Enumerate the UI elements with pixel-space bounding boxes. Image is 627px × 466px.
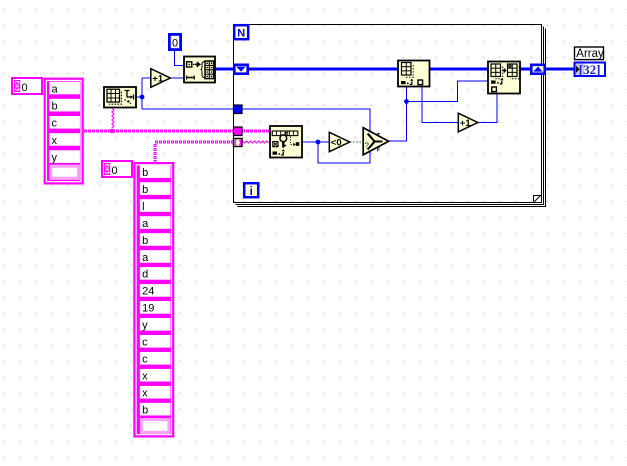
svg-text:Array: Array — [576, 48, 604, 60]
Array indicator terminal I32 — [575, 62, 606, 77]
Select node — [363, 128, 389, 155]
wire string element inside loop to Search node — [243, 141, 269, 143]
wire string-array inside loop to Search node — [242, 129, 270, 132]
increment +1 node — [151, 69, 171, 88]
wire array1 branch up to Array Size — [112, 108, 114, 128]
Array indicator label — [575, 47, 605, 60]
svg-text:d: d — [142, 269, 148, 281]
wire junction bead — [110, 129, 115, 134]
Replace Array Subset node — [488, 62, 520, 94]
iteration terminal i — [244, 183, 258, 198]
svg-text:a: a — [142, 252, 149, 264]
svg-text:b: b — [142, 184, 148, 196]
wire string-array from array1 to loop tunnel — [84, 129, 234, 132]
svg-text:b: b — [142, 235, 148, 247]
svg-text:c: c — [142, 337, 148, 349]
wire i32-array Initialize Array to left shift register — [215, 68, 234, 71]
wire size tunnel to Select T input — [243, 109, 371, 131]
svg-text:[32]: [32] — [579, 62, 601, 77]
svg-text:c: c — [52, 118, 58, 130]
wire +1 to Replace new element — [479, 94, 498, 123]
wire string-array from array2 up and to loop tunnel — [155, 142, 234, 163]
wire i32-array shift register to Index Array — [249, 68, 398, 71]
for loop frame — [234, 25, 546, 207]
svg-text:0: 0 — [112, 165, 118, 177]
svg-text:0: 0 — [172, 37, 178, 49]
svg-text:l: l — [142, 201, 144, 213]
wire i32-array right shift register to Array indicator — [546, 68, 574, 71]
less than zero node — [329, 132, 349, 151]
wire green boolean <0 to Select — [350, 141, 363, 143]
right shift register — [531, 65, 544, 74]
svg-text:+1: +1 — [152, 74, 164, 85]
svg-text:0: 0 — [22, 82, 28, 94]
array control 1 (a b c x y) — [44, 78, 84, 185]
array control 1 index box — [11, 77, 43, 95]
tunnel string array — [234, 127, 243, 136]
svg-text:24: 24 — [142, 286, 154, 298]
tunnel auto-indexing [] — [234, 139, 243, 147]
svg-text:x: x — [142, 371, 148, 383]
svg-text:x: x — [142, 388, 148, 400]
svg-text:x: x — [52, 135, 58, 147]
svg-text:i: i — [250, 186, 253, 198]
tunnel i32 size — [234, 105, 243, 114]
wire i32-array Index Array to Replace Array Subset — [430, 68, 489, 71]
svg-text:b: b — [52, 100, 58, 112]
svg-text:a: a — [142, 218, 149, 230]
Search 1D Array node — [270, 126, 302, 158]
svg-text:c: c — [142, 354, 148, 366]
svg-text:F: F — [377, 147, 381, 153]
svg-text:y: y — [52, 152, 58, 164]
svg-text:b: b — [142, 167, 148, 179]
left shift register — [234, 65, 247, 74]
wire Select output to Index Array and Replace index — [389, 81, 488, 141]
wire Search output to <0 and Select F input — [302, 140, 370, 163]
svg-text:T: T — [377, 133, 381, 139]
wire Array Size to +1 and N-tunnel — [136, 78, 234, 109]
array control 2 index box — [101, 160, 133, 178]
array control 2 (b b l a b a d 24 19 y c c x x b) — [133, 162, 174, 438]
svg-text:<0: <0 — [331, 138, 342, 149]
svg-text:19: 19 — [142, 303, 154, 315]
svg-text:a: a — [52, 83, 59, 95]
Initialize Array node — [184, 57, 215, 83]
svg-text:?: ? — [365, 140, 369, 149]
wire 0 constant to Initialize Array — [175, 50, 185, 66]
svg-text:y: y — [142, 320, 148, 332]
Index Array node — [398, 61, 430, 87]
loop count terminal N — [234, 25, 248, 39]
wire i32-array Replace Array Subset to right shift register — [520, 68, 530, 71]
svg-text:b: b — [142, 404, 148, 416]
wire +1 to Initialize Array — [171, 77, 185, 79]
increment +1 node 2 — [458, 113, 478, 132]
Array Size node — [104, 87, 136, 108]
numeric constant 0 — [169, 34, 180, 49]
svg-text:N: N — [237, 28, 245, 40]
wire Index Array element to +1 — [422, 87, 458, 123]
svg-text:+1: +1 — [460, 118, 472, 129]
